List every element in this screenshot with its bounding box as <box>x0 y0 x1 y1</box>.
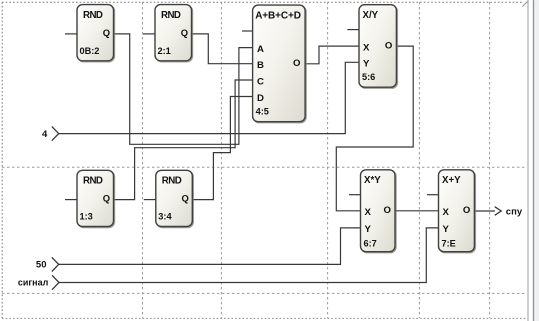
svg-text:4:5: 4:5 <box>256 107 269 117</box>
svg-text:X: X <box>443 207 450 218</box>
node input сигнал chevron <box>52 275 59 289</box>
svg-text:X: X <box>363 42 370 53</box>
svg-text:5:6: 5:6 <box>362 72 375 82</box>
wire RND1.Q -> SUM.A <box>113 34 252 144</box>
RND generator U1 (0B:2) <box>65 5 114 61</box>
divider U4 X/Y (5:6) <box>347 5 396 88</box>
svg-text:O: O <box>463 205 471 216</box>
node input 50 chevron <box>52 257 59 271</box>
canvas dotted border top <box>2 1 523 3</box>
node output спу arrow <box>495 207 502 216</box>
svg-text:3:4: 3:4 <box>158 212 172 222</box>
grid dashed vertical x=489 <box>489 2 491 318</box>
wire SUM.O -> DIV.X <box>305 46 359 64</box>
grid dashed horizontal y=167 <box>2 166 527 168</box>
right chrome: gutter fill <box>535 0 539 321</box>
RND generator U5 (1:3) <box>65 170 114 226</box>
svg-text:Y: Y <box>365 224 372 235</box>
svg-text:A+B+C+D: A+B+C+D <box>255 10 301 21</box>
right chrome: canvas edge line <box>527 0 529 321</box>
multiplier U7 X*Y (6:7) <box>349 170 395 252</box>
wire RND4.Q -> SUM.D <box>192 97 252 200</box>
svg-text:RND: RND <box>83 176 103 187</box>
svg-text:D: D <box>257 93 264 104</box>
svg-text:0B:2: 0B:2 <box>80 46 100 56</box>
grid dashed vertical x=327 <box>327 2 329 318</box>
svg-text:C: C <box>257 76 264 87</box>
wire input сигнал -> ADD.Y <box>58 228 439 283</box>
svg-text:2:1: 2:1 <box>158 46 171 56</box>
svg-text:50: 50 <box>36 260 47 271</box>
scrollbar top notch <box>523 1 529 7</box>
canvas dotted border bottom <box>2 317 527 319</box>
canvas dotted border left <box>1 2 3 318</box>
svg-text:спу: спу <box>506 207 523 218</box>
svg-text:4: 4 <box>42 129 48 140</box>
svg-text:RND: RND <box>161 10 181 21</box>
wire RND2.Q -> SUM.B <box>192 34 253 64</box>
adder U3 A+B+C+D (4:5) <box>242 5 305 122</box>
svg-text:RND: RND <box>162 176 182 187</box>
svg-text:B: B <box>257 60 264 71</box>
grid dashed vertical x=142 <box>142 2 144 318</box>
grid dashed horizontal y=293 <box>2 292 527 294</box>
svg-text:O: O <box>384 205 392 216</box>
wire ADD.O -> output спу <box>474 210 495 212</box>
svg-text:сигнал: сигнал <box>18 277 49 287</box>
svg-text:Q: Q <box>103 27 110 38</box>
svg-text:6:7: 6:7 <box>364 239 377 249</box>
wire MUL.O -> ADD.X <box>395 210 439 212</box>
svg-text:Y: Y <box>443 224 450 235</box>
grid dashed vertical x=221 <box>220 2 222 318</box>
wire input 4 -> DIV.Y <box>58 62 359 133</box>
svg-text:Q: Q <box>182 193 189 204</box>
right chrome: panel divider line <box>533 0 535 321</box>
svg-text:X/Y: X/Y <box>363 10 379 21</box>
svg-text:O: O <box>293 58 301 69</box>
RND generator U2 (2:1) <box>143 5 192 61</box>
svg-text:A: A <box>257 44 264 55</box>
RND generator U6 (3:4) <box>144 170 193 226</box>
adder U8 X+Y (7:E) <box>427 170 474 252</box>
wire RND3.Q -> SUM.C <box>113 80 252 200</box>
wire input 50 -> MUL.Y <box>58 228 361 265</box>
svg-text:Q: Q <box>181 27 188 38</box>
svg-text:O: O <box>385 41 393 52</box>
svg-text:Y: Y <box>363 59 370 70</box>
svg-text:1:3: 1:3 <box>80 212 93 222</box>
grid dashed vertical x=419 <box>418 2 420 318</box>
svg-text:RND: RND <box>83 10 103 21</box>
svg-text:X+Y: X+Y <box>442 175 461 186</box>
svg-text:Q: Q <box>103 193 110 204</box>
wire DIV.O -> MUL.X <box>336 46 413 211</box>
svg-text:X*Y: X*Y <box>364 175 381 186</box>
svg-text:X: X <box>365 207 372 218</box>
svg-text:7:E: 7:E <box>442 239 456 249</box>
node input 4 chevron <box>52 127 59 141</box>
